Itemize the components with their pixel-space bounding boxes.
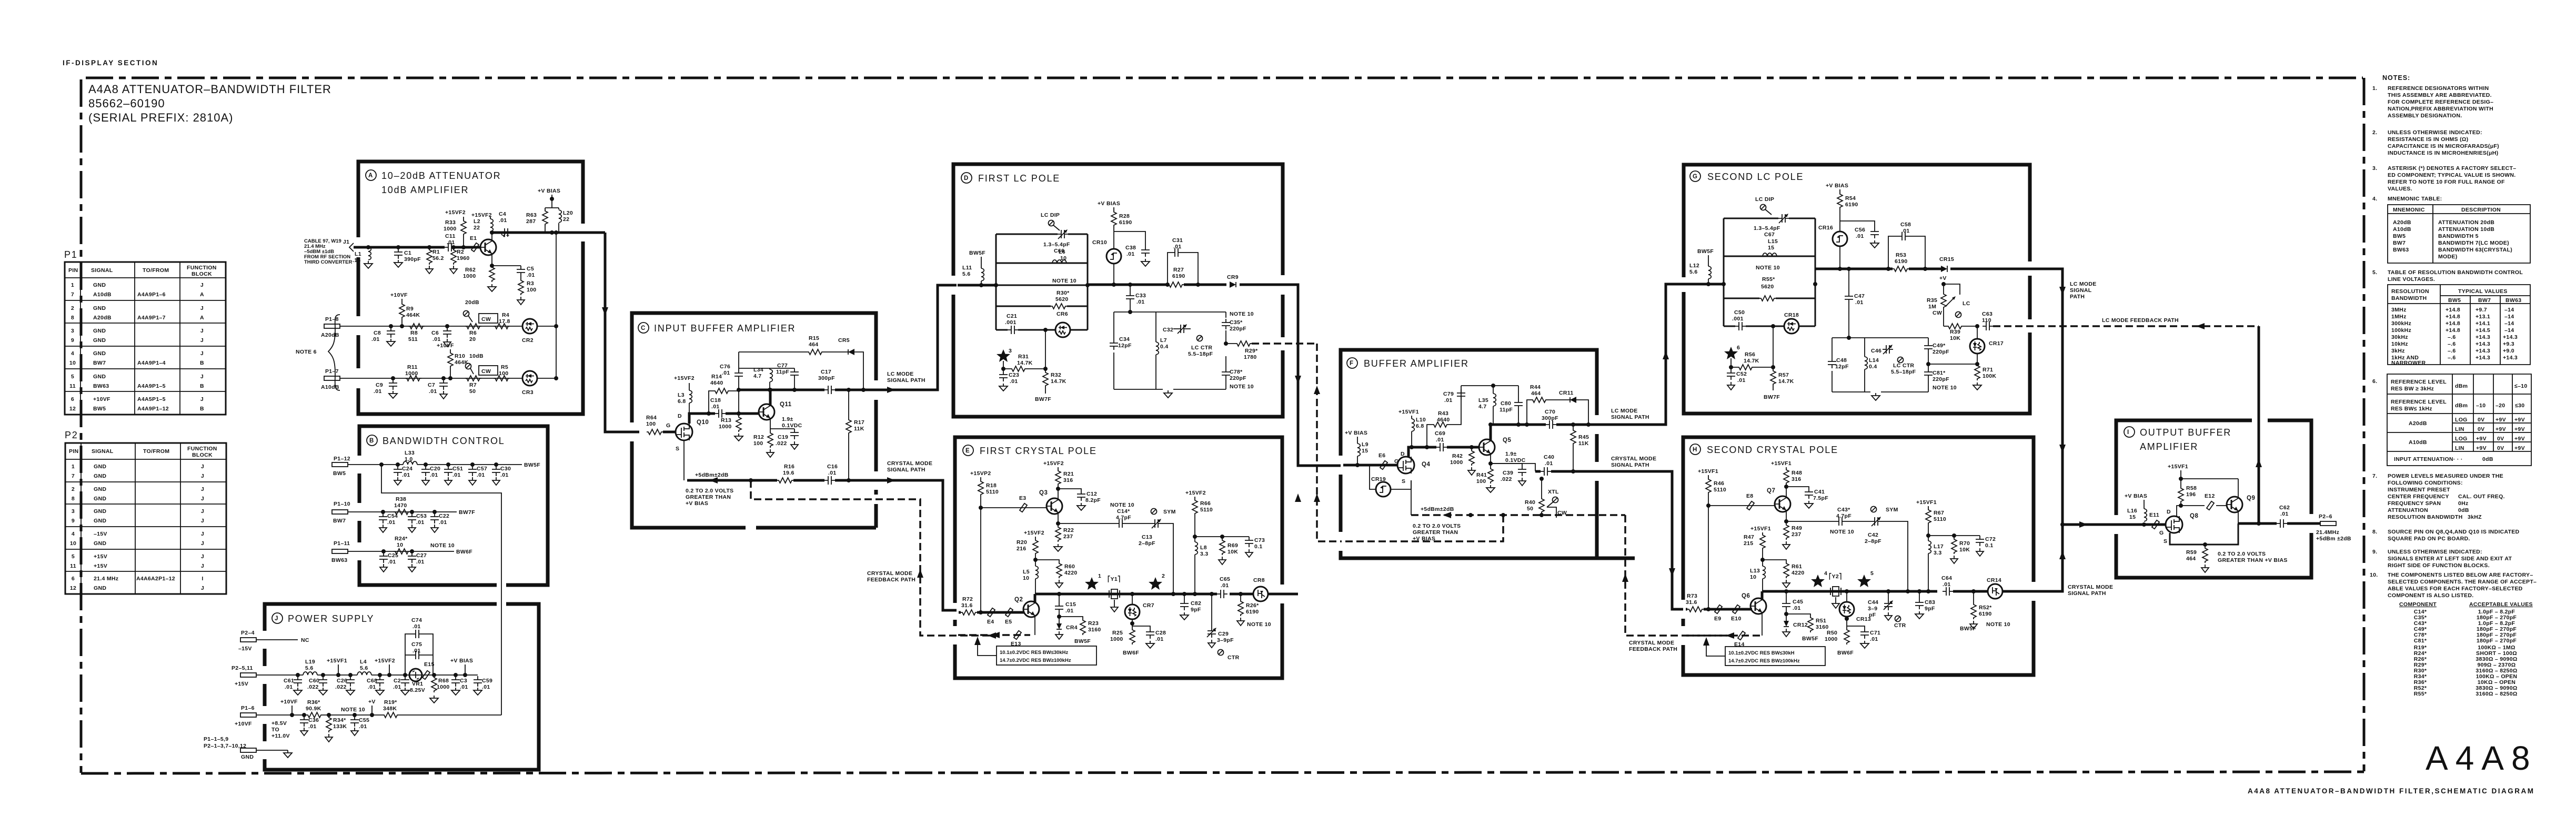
svg-text:C34: C34 bbox=[1119, 336, 1130, 343]
resistor R71 bbox=[1973, 364, 1996, 390]
svg-text:B: B bbox=[369, 438, 374, 444]
capacitor C8 bbox=[371, 324, 395, 346]
svg-text:R25: R25 bbox=[1112, 630, 1123, 636]
svg-text:R5: R5 bbox=[501, 364, 508, 370]
capacitor C48 bbox=[1828, 357, 1849, 370]
svg-text:R45: R45 bbox=[1578, 434, 1589, 440]
potentiometer R35 bbox=[1927, 275, 1970, 326]
node: block F title bbox=[1347, 358, 1469, 369]
svg-text:10K: 10K bbox=[1959, 547, 1970, 553]
capacitor C34 bbox=[1110, 336, 1132, 350]
node: crystal mode label HI bbox=[2068, 584, 2113, 597]
svg-text:R1: R1 bbox=[432, 249, 440, 255]
svg-text:3160Ω – 8250Ω: 3160Ω – 8250Ω bbox=[2476, 691, 2517, 697]
svg-text:+10VF: +10VF bbox=[390, 292, 408, 298]
svg-text:E4: E4 bbox=[987, 619, 994, 625]
svg-text:BW7: BW7 bbox=[333, 518, 346, 524]
resistor R60 bbox=[1035, 560, 1078, 588]
svg-text:14.7K: 14.7K bbox=[1017, 360, 1033, 366]
svg-text:C16: C16 bbox=[827, 464, 838, 470]
svg-text:NATION,PREFIX ABBREVIATION WIT: NATION,PREFIX ABBREVIATION WITH bbox=[2388, 106, 2493, 112]
svg-text:CR5: CR5 bbox=[838, 337, 850, 344]
svg-text:12: 12 bbox=[70, 585, 76, 591]
capacitor C24 bbox=[394, 462, 412, 485]
svg-text:511: 511 bbox=[408, 336, 418, 343]
svg-text:+15VF1: +15VF1 bbox=[327, 658, 347, 664]
inductor L34 bbox=[739, 367, 794, 390]
svg-text:GND: GND bbox=[93, 350, 106, 357]
svg-text:0dB: 0dB bbox=[2458, 507, 2469, 513]
resistor R55 bbox=[1756, 265, 1780, 301]
svg-text:+9V: +9V bbox=[2495, 426, 2506, 432]
svg-text:7.5pF: 7.5pF bbox=[1813, 495, 1828, 501]
capacitor C58 bbox=[1888, 221, 1925, 269]
svg-text:D: D bbox=[678, 413, 682, 419]
svg-text:12pF: 12pF bbox=[1835, 364, 1849, 370]
svg-text:CR14: CR14 bbox=[1987, 577, 2001, 583]
wire: +10VF rail bbox=[256, 714, 501, 716]
resistor R30 bbox=[1051, 278, 1076, 309]
svg-text:8.: 8. bbox=[2372, 529, 2377, 535]
block J frame bbox=[265, 604, 539, 770]
svg-text:C: C bbox=[641, 325, 646, 331]
block E frame bbox=[955, 437, 1282, 678]
svg-text:+5dBm±2dB: +5dBm±2dB bbox=[695, 472, 729, 478]
resistor R41 bbox=[1476, 466, 1495, 492]
svg-text:+15VF2: +15VF2 bbox=[471, 212, 492, 218]
svg-text:9pF: 9pF bbox=[1191, 607, 1201, 613]
svg-text:196: 196 bbox=[2186, 491, 2196, 498]
svg-text:+V BIAS: +V BIAS bbox=[686, 500, 708, 507]
transistor Q1 bbox=[480, 231, 509, 266]
svg-text:1: 1 bbox=[72, 464, 75, 470]
svg-text:0V: 0V bbox=[2478, 426, 2484, 432]
svg-text:R28: R28 bbox=[1119, 213, 1130, 219]
svg-text:.01: .01 bbox=[828, 470, 837, 476]
block B frame bbox=[359, 426, 548, 585]
svg-text:A10dB: A10dB bbox=[2409, 439, 2427, 446]
node: +15VF2 tap bbox=[375, 658, 395, 677]
inductor L12 bbox=[1689, 248, 1714, 286]
svg-text:R42: R42 bbox=[1452, 453, 1463, 459]
svg-text:GND: GND bbox=[93, 337, 106, 344]
block A frame bbox=[358, 162, 583, 414]
svg-text:11pF: 11pF bbox=[1500, 407, 1513, 413]
svg-text:Q6: Q6 bbox=[1742, 593, 1750, 599]
svg-text:BW7: BW7 bbox=[2478, 297, 2491, 304]
node: 0.2 volts annotation bbox=[686, 488, 733, 507]
resistor R36 bbox=[306, 699, 365, 718]
svg-text:R64: R64 bbox=[646, 415, 657, 421]
svg-text:10kHz: 10kHz bbox=[2391, 341, 2408, 347]
svg-text:4640: 4640 bbox=[1437, 417, 1450, 423]
svg-text:5.: 5. bbox=[2372, 269, 2377, 276]
wire: +15V rail bbox=[256, 674, 478, 676]
capacitor C30 bbox=[492, 462, 511, 485]
svg-text:10dB: 10dB bbox=[469, 353, 484, 359]
svg-text:C69: C69 bbox=[1435, 430, 1445, 437]
svg-text:(SERIAL PREFIX: 2810A): (SERIAL PREFIX: 2810A) bbox=[88, 111, 234, 124]
svg-text:.01: .01 bbox=[500, 472, 509, 478]
svg-text:R32: R32 bbox=[1051, 372, 1061, 378]
svg-text:+14.8: +14.8 bbox=[2446, 327, 2460, 334]
svg-text:1.: 1. bbox=[2372, 85, 2377, 92]
svg-text:0.2 TO 2.0 VOLTS: 0.2 TO 2.0 VOLTS bbox=[1413, 523, 1461, 529]
svg-text:6: 6 bbox=[72, 576, 75, 582]
svg-text:ASSEMBLY DESIGNATION.: ASSEMBLY DESIGNATION. bbox=[2388, 113, 2462, 119]
svg-text:2: 2 bbox=[71, 305, 74, 311]
svg-text:10: 10 bbox=[70, 540, 76, 547]
svg-text:4.7pF: 4.7pF bbox=[1836, 513, 1851, 519]
svg-text:10: 10 bbox=[1023, 575, 1029, 581]
svg-text:FUNCTION: FUNCTION bbox=[187, 265, 217, 271]
diode CR2 bbox=[522, 319, 537, 344]
ferrite E9 bbox=[1714, 605, 1722, 622]
svg-text:J: J bbox=[200, 305, 204, 311]
svg-text:.01: .01 bbox=[416, 519, 425, 526]
svg-text:5620: 5620 bbox=[1761, 284, 1774, 290]
node: block C title bbox=[638, 323, 796, 334]
svg-text:.01: .01 bbox=[1545, 460, 1553, 467]
node: note 6 reference level table bbox=[2372, 374, 2531, 466]
svg-text:R36*: R36* bbox=[307, 699, 320, 706]
inductor L9 bbox=[1345, 430, 1368, 467]
svg-text:9pF: 9pF bbox=[1925, 606, 1935, 612]
svg-text:≤30: ≤30 bbox=[2515, 402, 2524, 409]
resistor R39 bbox=[1944, 324, 1979, 341]
svg-text:A4A8: A4A8 bbox=[2426, 739, 2538, 777]
wire: F to H crystal route bbox=[1597, 471, 1683, 609]
node: star 2 bbox=[1149, 573, 1165, 590]
svg-text:C51: C51 bbox=[452, 466, 463, 472]
svg-text:R41: R41 bbox=[1476, 472, 1487, 478]
svg-text:6.8: 6.8 bbox=[1416, 423, 1424, 429]
wire: C to E crystal route bbox=[873, 480, 957, 610]
resistor R1 bbox=[426, 245, 444, 274]
resistor R13 bbox=[719, 416, 743, 441]
svg-text:+V: +V bbox=[1939, 275, 1947, 281]
node: +10VF tap bbox=[280, 699, 298, 717]
crystal Y2 bbox=[1829, 572, 1842, 608]
capacitor C41 bbox=[1784, 485, 1828, 508]
svg-text:10.1±0.2VDC RES BW≤30kHz: 10.1±0.2VDC RES BW≤30kHz bbox=[1000, 650, 1069, 656]
svg-text:L33: L33 bbox=[405, 450, 415, 456]
svg-text:Q3: Q3 bbox=[1039, 490, 1048, 496]
svg-text:19.6: 19.6 bbox=[783, 470, 794, 476]
svg-text:ABLE VALUES FOR EACH FACTORY–S: ABLE VALUES FOR EACH FACTORY–SELECTED bbox=[2388, 586, 2523, 592]
resistor R45 bbox=[1571, 422, 1589, 474]
capacitor C74 bbox=[405, 617, 433, 675]
svg-text:C73: C73 bbox=[1254, 537, 1265, 543]
svg-text:4: 4 bbox=[72, 531, 75, 537]
diode CR14 bbox=[1987, 577, 2003, 599]
svg-text:SQUARE PAD ON PC BOARD.: SQUARE PAD ON PC BOARD. bbox=[2388, 536, 2470, 542]
inductor L2 bbox=[471, 212, 494, 235]
svg-text:+14.8: +14.8 bbox=[2446, 314, 2460, 320]
svg-text:BW5F: BW5F bbox=[969, 250, 985, 256]
svg-text:5.6: 5.6 bbox=[360, 665, 368, 671]
svg-text:INSTRUMENT PRESET: INSTRUMENT PRESET bbox=[2388, 487, 2450, 493]
svg-text:90.9K: 90.9K bbox=[306, 706, 321, 712]
svg-text:R56: R56 bbox=[1745, 351, 1755, 358]
svg-text:SECOND LC POLE: SECOND LC POLE bbox=[1707, 172, 1804, 182]
wire: I output bbox=[2238, 522, 2320, 525]
svg-text:J: J bbox=[200, 337, 204, 344]
svg-text:R15: R15 bbox=[809, 335, 819, 341]
capacitor C56 bbox=[1840, 221, 1879, 248]
node: block H title bbox=[1690, 444, 1838, 455]
svg-text:0.1: 0.1 bbox=[1254, 543, 1263, 550]
svg-text:C27: C27 bbox=[416, 552, 427, 559]
svg-text:L35: L35 bbox=[1478, 397, 1488, 404]
svg-text:R26*: R26* bbox=[1246, 602, 1259, 609]
svg-text:–14: –14 bbox=[2504, 314, 2514, 320]
variable capacitor C46 bbox=[1871, 345, 1916, 375]
svg-text:287: 287 bbox=[526, 218, 536, 225]
svg-text:BW7F: BW7F bbox=[1035, 396, 1051, 402]
resistor R19 bbox=[383, 699, 399, 718]
svg-text:BW5F: BW5F bbox=[524, 462, 540, 468]
svg-text:6190: 6190 bbox=[1845, 202, 1858, 208]
svg-text:CR4: CR4 bbox=[1066, 624, 1078, 631]
svg-text:+9.0: +9.0 bbox=[2503, 348, 2514, 354]
capacitor C61 bbox=[284, 673, 302, 695]
svg-text:Q11: Q11 bbox=[780, 401, 792, 408]
svg-text:BLOCK: BLOCK bbox=[192, 271, 212, 277]
resistor R49 bbox=[1783, 519, 1802, 549]
svg-text:.01: .01 bbox=[387, 519, 396, 526]
resistor R25 bbox=[1110, 623, 1139, 656]
ferrite E10 bbox=[1731, 605, 1742, 622]
svg-text:LINE VOLTAGES.: LINE VOLTAGES. bbox=[2388, 276, 2435, 283]
svg-text:1960: 1960 bbox=[457, 255, 470, 261]
svg-text:100: 100 bbox=[646, 421, 656, 427]
svg-text:C8: C8 bbox=[374, 330, 381, 336]
svg-text:0.2 TO 2.0 VOLTS: 0.2 TO 2.0 VOLTS bbox=[686, 488, 733, 494]
ferrite E11 bbox=[2149, 512, 2159, 529]
svg-text:6: 6 bbox=[1737, 345, 1740, 351]
svg-text:A4A8 ATTENUATOR–BANDWIDTH FILT: A4A8 ATTENUATOR–BANDWIDTH FILTER bbox=[88, 83, 331, 96]
svg-text:.15: .15 bbox=[353, 257, 361, 264]
svg-text:300pF: 300pF bbox=[1542, 415, 1558, 421]
svg-text:CW: CW bbox=[481, 368, 491, 375]
node: note 4 mnemonic table bbox=[2372, 196, 2530, 263]
svg-text:SIGNAL: SIGNAL bbox=[2070, 287, 2092, 294]
svg-text:.01: .01 bbox=[1793, 605, 1801, 611]
svg-text:.01: .01 bbox=[1221, 582, 1229, 589]
svg-text:GND: GND bbox=[94, 464, 106, 470]
svg-text:GND: GND bbox=[93, 305, 106, 311]
capacitor C19 bbox=[770, 429, 799, 449]
svg-text:1780: 1780 bbox=[1244, 354, 1257, 360]
block G frame bbox=[1684, 165, 2030, 414]
svg-text:E9: E9 bbox=[1714, 616, 1721, 622]
svg-text:R31: R31 bbox=[1018, 354, 1029, 360]
capacitor C14 bbox=[1058, 502, 1134, 528]
resistor R21 bbox=[1043, 460, 1074, 487]
svg-text:pF: pF bbox=[1869, 612, 1876, 618]
svg-text:J: J bbox=[200, 350, 204, 357]
resistor R42 bbox=[1450, 445, 1475, 475]
resistor R38 bbox=[394, 496, 410, 515]
svg-text:R70: R70 bbox=[1959, 540, 1970, 547]
resistor R70 bbox=[1928, 533, 1980, 563]
svg-text:1000: 1000 bbox=[1110, 636, 1123, 642]
svg-text:4.7pF: 4.7pF bbox=[1116, 515, 1131, 521]
svg-text:C81*: C81* bbox=[1933, 370, 1946, 376]
ground: tank G bbox=[1871, 393, 1880, 400]
svg-text:FOR COMPLETE REFERENCE DESIG–: FOR COMPLETE REFERENCE DESIG– bbox=[2388, 99, 2493, 105]
svg-text:J: J bbox=[201, 473, 204, 479]
svg-text:D: D bbox=[1401, 451, 1405, 457]
transistor Q10 bbox=[666, 413, 709, 452]
svg-text:C64: C64 bbox=[1941, 575, 1952, 581]
svg-text:3160: 3160 bbox=[1088, 627, 1101, 633]
svg-text:C7: C7 bbox=[428, 382, 435, 388]
resistor R4 bbox=[494, 312, 510, 329]
resistor R63 bbox=[526, 209, 548, 226]
svg-text:6190: 6190 bbox=[1172, 273, 1185, 279]
resistor R68 bbox=[430, 673, 450, 703]
svg-text:1.9±: 1.9± bbox=[782, 416, 793, 422]
svg-text:R58: R58 bbox=[2186, 485, 2197, 491]
resistor R51 bbox=[1786, 614, 1829, 642]
svg-text:+9.3: +9.3 bbox=[2503, 341, 2514, 347]
svg-text:C3: C3 bbox=[460, 678, 467, 684]
svg-text:SIGNAL PATH: SIGNAL PATH bbox=[1611, 462, 1649, 468]
svg-text:22: 22 bbox=[563, 216, 569, 223]
svg-text:+9V: +9V bbox=[2514, 436, 2525, 442]
transistor Q11 bbox=[759, 390, 802, 429]
svg-text:B: B bbox=[200, 360, 204, 366]
svg-text:+14.8: +14.8 bbox=[2446, 307, 2460, 313]
svg-text:R27: R27 bbox=[1173, 267, 1184, 273]
variable capacitor C67 bbox=[1754, 214, 1789, 238]
svg-text:4.7: 4.7 bbox=[1478, 404, 1487, 410]
svg-text:20dB: 20dB bbox=[465, 299, 479, 306]
svg-text:C22: C22 bbox=[439, 513, 449, 519]
node: +V tap bbox=[368, 699, 376, 717]
svg-text:FOLLOWING CONDITIONS:: FOLLOWING CONDITIONS: bbox=[2388, 480, 2463, 486]
svg-text:C17: C17 bbox=[821, 369, 831, 375]
svg-text:BW63: BW63 bbox=[331, 557, 347, 563]
svg-text:14.7K: 14.7K bbox=[1744, 358, 1759, 364]
crystal Y1 bbox=[1108, 575, 1121, 612]
capacitor C59 bbox=[474, 676, 492, 695]
svg-text:C28: C28 bbox=[1155, 630, 1166, 636]
svg-text:L15: L15 bbox=[1768, 238, 1778, 245]
svg-text:C13: C13 bbox=[1142, 534, 1152, 540]
svg-text:C44: C44 bbox=[1868, 599, 1878, 606]
svg-text:BW63: BW63 bbox=[2505, 297, 2521, 304]
svg-text:R35: R35 bbox=[1927, 297, 1937, 304]
svg-text:CR9: CR9 bbox=[1227, 274, 1239, 280]
svg-text:BW5F: BW5F bbox=[1697, 248, 1714, 255]
svg-text:NOTE 10: NOTE 10 bbox=[1230, 311, 1254, 317]
svg-text:L17: L17 bbox=[1934, 543, 1944, 550]
capacitor C50 bbox=[1732, 309, 1746, 330]
capacitor C2 bbox=[393, 673, 409, 695]
capacitor C49 bbox=[1924, 342, 1949, 355]
svg-text:.01: .01 bbox=[447, 239, 455, 246]
node: block E title bbox=[963, 445, 1097, 456]
svg-text:COMPONENT: COMPONENT bbox=[2399, 601, 2437, 608]
resistor R16 bbox=[777, 464, 794, 483]
svg-text:1.3–5.4pF: 1.3–5.4pF bbox=[1043, 241, 1070, 248]
svg-text:1MHz: 1MHz bbox=[2391, 314, 2407, 320]
svg-text:CR6: CR6 bbox=[1056, 311, 1068, 317]
svg-text:8: 8 bbox=[71, 315, 74, 321]
svg-text:C36: C36 bbox=[308, 717, 319, 723]
svg-text:.01: .01 bbox=[1436, 437, 1444, 443]
svg-text:GND: GND bbox=[94, 540, 106, 547]
svg-text:F: F bbox=[1350, 360, 1354, 367]
svg-text:A: A bbox=[200, 291, 204, 298]
wire: crystal feedback dashed bbox=[749, 478, 996, 639]
svg-text:+V BIAS: +V BIAS bbox=[2125, 493, 2147, 499]
ground: tank bbox=[1164, 390, 1172, 398]
svg-text:.01: .01 bbox=[527, 272, 535, 278]
svg-text:3: 3 bbox=[71, 328, 74, 334]
svg-text:+V BIAS: +V BIAS bbox=[450, 658, 473, 664]
svg-text:CR11: CR11 bbox=[1559, 390, 1573, 396]
svg-text:C60: C60 bbox=[309, 678, 319, 684]
potentiometer R7 bbox=[465, 353, 498, 395]
svg-text:A10dB: A10dB bbox=[2393, 226, 2411, 233]
svg-text:BW63: BW63 bbox=[2393, 247, 2409, 253]
svg-text:1000: 1000 bbox=[719, 424, 732, 430]
svg-text:INDUCTANCE IS IN MICROHENRIES(: INDUCTANCE IS IN MICROHENRIES(μH) bbox=[2388, 150, 2498, 156]
svg-text:+15V: +15V bbox=[235, 681, 248, 687]
inductor L15 bbox=[1763, 238, 1778, 256]
svg-text:.01: .01 bbox=[429, 388, 437, 395]
svg-text:R23: R23 bbox=[1088, 620, 1099, 627]
svg-text:R47: R47 bbox=[1744, 534, 1754, 540]
resistor R18 bbox=[970, 470, 999, 612]
diode CR17 bbox=[1928, 326, 2004, 366]
wire: block A output to block C bbox=[605, 233, 639, 432]
svg-text:+14.3: +14.3 bbox=[2476, 348, 2490, 354]
node: block D title bbox=[961, 173, 1060, 184]
capacitor C26 bbox=[335, 673, 355, 695]
svg-text:L34: L34 bbox=[753, 367, 763, 373]
node: LC DIP adjust bbox=[1041, 212, 1060, 230]
svg-text:R17: R17 bbox=[854, 419, 864, 426]
ferrite E6 bbox=[1378, 452, 1398, 469]
svg-text:BANDWIDTH CONTROL: BANDWIDTH CONTROL bbox=[383, 436, 505, 446]
capacitor C31 / resistor R27 parallel bbox=[1165, 237, 1200, 287]
node: note 7 bbox=[2372, 473, 2505, 520]
node: 0.2 volts annotation I bbox=[2218, 551, 2288, 563]
svg-text:C19: C19 bbox=[778, 434, 788, 440]
transistor Q4 bbox=[1397, 451, 1430, 485]
connector P1-6 bbox=[235, 705, 256, 727]
svg-text:.01: .01 bbox=[368, 684, 376, 690]
svg-text:POWER SUPPLY: POWER SUPPLY bbox=[288, 613, 374, 624]
resistor R20 bbox=[1017, 530, 1044, 566]
resistor R29 bbox=[1226, 341, 1317, 360]
svg-text:.01: .01 bbox=[1855, 299, 1864, 306]
svg-text:R69: R69 bbox=[1227, 542, 1238, 549]
node: VDC select box E bbox=[974, 637, 1096, 665]
svg-text:J: J bbox=[201, 531, 204, 537]
svg-text:A: A bbox=[200, 315, 204, 321]
svg-text:C76: C76 bbox=[720, 364, 730, 370]
svg-text:4220: 4220 bbox=[1792, 570, 1805, 576]
svg-text:GREATER THAN: GREATER THAN bbox=[686, 494, 731, 500]
node: +15VF1 tap bbox=[327, 658, 347, 677]
svg-text:BW6F: BW6F bbox=[456, 549, 472, 555]
